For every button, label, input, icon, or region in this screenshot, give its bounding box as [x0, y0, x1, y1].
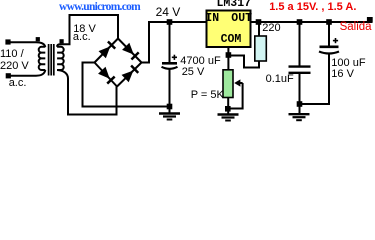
label LM317 — [217, 0, 252, 9]
diode D3 (bridge bottom-left) — [95, 63, 118, 87]
capacitor C3 bottom lead — [300, 54, 330, 105]
label 18 V — [73, 24, 96, 35]
capacitor C2 bottom lead — [299, 74, 301, 114]
wire bridge negative to ground rail — [83, 63, 170, 107]
potentiometer P1 bottom lead — [227, 98, 229, 115]
label a.c. secondary — [73, 32, 91, 43]
capacitor C3 100uF top lead — [328, 22, 330, 46]
label title — [269, 2, 356, 13]
capacitor C3 plus sign — [333, 38, 338, 43]
value label P = 5K — [191, 90, 224, 101]
node 24V rail / C1 junction — [167, 19, 173, 25]
terminal primary top — [5, 39, 10, 44]
label 24 V — [156, 7, 181, 18]
value label 25 V — [182, 67, 205, 78]
value label 220 — [262, 23, 280, 34]
transformer T1 core — [49, 44, 54, 76]
pin label OUT — [231, 13, 252, 24]
ground GND2 (pot) — [218, 115, 239, 121]
label 220 V — [0, 61, 29, 72]
wire secondary bottom to bridge AC2 — [57, 70, 116, 115]
pin label IN — [205, 13, 219, 24]
polarity dot secondary — [60, 39, 64, 43]
capacitor C1 bottom lead — [169, 69, 171, 114]
ground GND3 (output) — [289, 114, 310, 120]
capacitor C1 plus sign — [172, 55, 177, 60]
node ADJ junction — [226, 52, 232, 58]
label 110 / — [0, 49, 24, 60]
potentiometer P1 5K body — [223, 70, 233, 98]
value label 4700 uF — [180, 56, 220, 67]
wire wiper to bottom terminal — [228, 83, 242, 109]
capacitor C2 0.1uF plates — [289, 67, 311, 73]
capacitor C2 0.1uF top lead — [299, 22, 301, 66]
transformer T1 secondary winding — [57, 47, 64, 70]
label Salida — [340, 22, 372, 33]
capacitor C1 4700uF plates — [162, 63, 178, 69]
wire ADJ to R1 bottom — [228, 56, 259, 68]
op-amp U1 LM317 regulator box — [207, 11, 251, 48]
transformer T1 primary winding — [39, 47, 46, 70]
terminal primary bottom — [6, 73, 11, 78]
node ground rail / C1 junction — [167, 104, 173, 110]
label a.c. primary — [9, 78, 27, 89]
value label 0.1uF — [266, 74, 294, 85]
diode D1 (bridge top-left) — [95, 39, 119, 63]
node output rail / C3 junction — [326, 19, 332, 25]
node C2 / C3 ground junction — [297, 101, 303, 107]
ground GND1 (filter) — [159, 114, 180, 120]
node output rail / R1 junction — [256, 19, 262, 25]
pin label COM — [221, 34, 242, 45]
polarity dot primary — [36, 37, 40, 41]
wire COM pin lead — [227, 47, 229, 70]
wire primary top lead — [8, 42, 45, 47]
label website — [59, 2, 140, 13]
resistor R1 220 top lead — [258, 22, 260, 36]
terminal Salida output — [367, 17, 373, 23]
resistor R1 220 body — [255, 36, 266, 61]
wire primary bottom lead — [8, 70, 45, 76]
diode D4 (bridge bottom-right) — [117, 63, 142, 87]
node pot bottom junction — [225, 106, 231, 112]
capacitor C1 4700uF top lead — [169, 22, 171, 63]
value label 100 uF — [331, 58, 365, 69]
value label 16 V — [331, 69, 354, 80]
capacitor C3 100uF plates — [319, 47, 339, 54]
wire OUT pin to output rail — [252, 21, 373, 23]
wire secondary top to bridge AC1 — [57, 15, 118, 47]
node output rail / C2 junction — [297, 19, 303, 25]
diode D2 (bridge top-right) — [118, 39, 142, 63]
wire bridge positive to 24V rail — [142, 22, 206, 63]
potentiometer P1 wiper arrow — [234, 79, 242, 86]
